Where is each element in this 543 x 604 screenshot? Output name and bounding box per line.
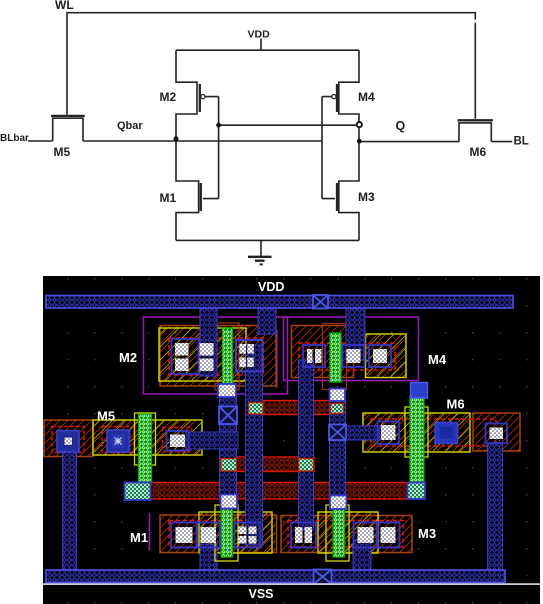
- svg-text:M1: M1: [160, 191, 177, 205]
- svg-text:M3: M3: [418, 526, 436, 541]
- svg-text:Qbar: Qbar: [117, 120, 143, 132]
- svg-text:M5: M5: [54, 145, 71, 159]
- svg-text:VDD: VDD: [248, 29, 271, 41]
- svg-text:M6: M6: [447, 397, 465, 412]
- svg-text:BLbar: BLbar: [0, 133, 29, 144]
- svg-text:WL: WL: [55, 0, 74, 12]
- svg-text:BL: BL: [514, 136, 529, 148]
- svg-text:M5: M5: [97, 409, 115, 424]
- svg-text:M3: M3: [358, 190, 375, 204]
- svg-text:Q: Q: [396, 119, 406, 133]
- svg-text:M6: M6: [470, 145, 487, 159]
- svg-text:VSS: VSS: [249, 587, 274, 601]
- svg-text:M2: M2: [119, 350, 137, 365]
- svg-text:VDD: VDD: [258, 280, 284, 294]
- svg-text:M4: M4: [428, 352, 447, 367]
- svg-text:M1: M1: [130, 530, 148, 545]
- svg-text:M2: M2: [160, 90, 177, 104]
- svg-text:M4: M4: [358, 90, 375, 104]
